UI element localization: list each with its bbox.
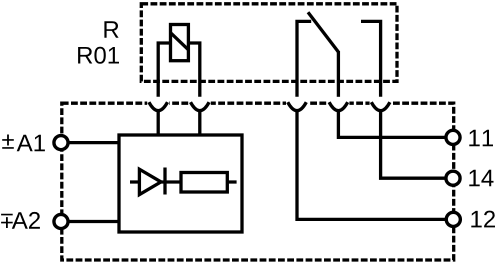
- diode D1 cathode bar: [163, 168, 166, 195]
- relay coil R01 body: [171, 25, 189, 61]
- wire coil left lead to module: [157, 110, 160, 135]
- label t11: [469, 130, 493, 147]
- wire terminal A2 to module: [61, 220, 119, 223]
- plug contact cup (NO): [371, 102, 390, 111]
- wire inside module: [130, 180, 237, 183]
- label A2: [12, 212, 40, 229]
- label R: [104, 21, 118, 38]
- white gaps in socket outline for plug contacts: [147, 101, 169, 106]
- label pm: [2, 135, 14, 149]
- terminal 14 circle: [446, 171, 460, 185]
- plug contact cup (coil left): [149, 102, 168, 111]
- suppressor module box: [119, 135, 242, 232]
- contact common lead (to 11): [337, 51, 340, 97]
- plug contact cup (coil right): [191, 102, 210, 111]
- contact movable blade: [308, 12, 338, 52]
- terminal 12 circle: [446, 212, 460, 226]
- relay coil R01 leads: [158, 43, 200, 97]
- relay outline dashed box (top): [141, 4, 397, 82]
- wire NO to terminal 14: [381, 110, 453, 178]
- wire terminal A1 to module: [61, 141, 119, 144]
- label A1: [17, 135, 45, 152]
- plug contact cup (common): [329, 102, 348, 111]
- wire coil right lead to module: [198, 110, 201, 135]
- terminal A1 circle: [54, 136, 68, 150]
- contact NC fixed terminal (to 12): [297, 21, 311, 96]
- terminal A2 circle: [54, 214, 68, 228]
- label t12: [471, 211, 495, 228]
- label mp: [1, 214, 13, 228]
- relay coil R01 diagonal: [171, 33, 189, 50]
- socket outline dashed box (bottom): [62, 103, 454, 260]
- resistor R1 body: [181, 173, 227, 193]
- label t14: [469, 170, 493, 187]
- label R01: [78, 47, 119, 64]
- plug contact cup (NC): [288, 102, 307, 111]
- contact NO fixed terminal (to 14): [361, 21, 381, 96]
- wire NC to terminal 12: [297, 110, 453, 219]
- terminal 11 circle: [446, 130, 460, 144]
- diode D1 triangle: [139, 169, 161, 194]
- wire common to terminal 11: [338, 110, 453, 137]
